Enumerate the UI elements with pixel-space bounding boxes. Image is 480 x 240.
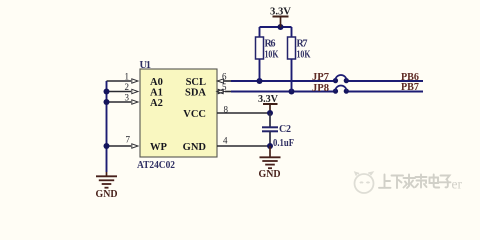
- junction SDA / R7: [289, 89, 295, 95]
- junction at A1: [104, 89, 110, 95]
- svg-text:0.1uF: 0.1uF: [273, 138, 294, 149]
- label JP8: [312, 82, 329, 94]
- ground symbol GND2 (C2): [260, 146, 281, 168]
- svg-text:10K: 10K: [297, 50, 311, 61]
- svg-text:8: 8: [224, 105, 229, 115]
- wire: SDA net right of JP8 to PB7: [347, 91, 423, 93]
- pin name WP: [150, 142, 168, 153]
- label GND (left): [96, 189, 118, 200]
- pin number 3: [125, 93, 130, 103]
- svg-text:er: er: [452, 177, 463, 192]
- net label PB7: [401, 81, 419, 93]
- junction at WP: [104, 143, 110, 149]
- svg-text:GND: GND: [259, 169, 281, 180]
- svg-text:A1: A1: [150, 88, 163, 99]
- svg-text:C2: C2: [279, 124, 291, 135]
- svg-text:SCL: SCL: [186, 77, 206, 88]
- svg-text:10K: 10K: [265, 50, 279, 61]
- svg-text:1: 1: [125, 72, 130, 82]
- pin name GND (pin 4): [183, 142, 207, 153]
- jumper JP8: [333, 86, 349, 94]
- svg-text:3.3V: 3.3V: [270, 6, 291, 18]
- junction at A2: [104, 99, 110, 105]
- resistor R7: [288, 27, 296, 92]
- junction VCC / C2: [267, 110, 273, 116]
- 子: [441, 176, 450, 188]
- pin 4 lead (GND): [217, 145, 270, 147]
- label JP7: [312, 71, 329, 83]
- pin number 8: [224, 105, 229, 115]
- pin number 2: [125, 82, 130, 92]
- pin name A0: [150, 77, 163, 88]
- junction GND pin / C2: [267, 143, 273, 149]
- wire: resistor tops joining: [260, 26, 292, 28]
- junction 3.3V / resistors: [278, 24, 284, 30]
- svg-text:5: 5: [222, 82, 227, 92]
- 下: [392, 175, 404, 177]
- pin name SCL: [186, 77, 206, 88]
- svg-text:6: 6: [222, 72, 227, 82]
- svg-text:4: 4: [223, 136, 228, 146]
- designator R6: [265, 39, 276, 50]
- pin name SDA: [185, 88, 206, 99]
- pin 2 lead (A1): [107, 89, 139, 93]
- pin name A1: [150, 88, 163, 99]
- pin 7 lead (WP): [107, 144, 139, 148]
- 电: [430, 178, 439, 184]
- label 3.3V (top): [270, 6, 291, 18]
- power port 3.3V (top): [273, 17, 289, 28]
- designator C2: [279, 124, 291, 135]
- jumper JP7: [333, 75, 349, 83]
- junction SCL / R6: [257, 78, 263, 84]
- svg-text:2: 2: [125, 82, 130, 92]
- capacitor C2: [262, 113, 278, 146]
- svg-text:WP: WP: [150, 142, 168, 153]
- svg-text:7: 7: [126, 135, 131, 145]
- svg-text:PB7: PB7: [401, 81, 419, 93]
- svg-text:GND: GND: [96, 189, 118, 200]
- power port 3.3V (VCC): [263, 104, 278, 113]
- 求: [404, 177, 416, 179]
- watermark text 上下求索电子er: [379, 175, 451, 189]
- value 10K (R7): [297, 50, 311, 61]
- pin 5 lead (SDA): [217, 89, 232, 93]
- pin number 1: [125, 72, 130, 82]
- ground symbol GND1 (left): [96, 172, 117, 188]
- resistor R6: [256, 27, 264, 81]
- pin 3 lead (A2): [107, 100, 139, 104]
- 索: [416, 176, 427, 178]
- pin number 4: [223, 136, 228, 146]
- svg-text:GND: GND: [183, 142, 207, 153]
- wire: SCL net (pin6 to jumper JP7): [231, 80, 335, 82]
- net label PB6: [401, 71, 419, 83]
- label 3.3V (VCC): [258, 93, 278, 105]
- pin 1 lead (A0): [107, 79, 139, 83]
- pin name VCC: [183, 109, 206, 120]
- value label AT24C02: [137, 160, 175, 171]
- label GND (C2): [259, 169, 281, 180]
- designator R7: [297, 39, 308, 50]
- svg-text:R7: R7: [297, 39, 308, 50]
- pin number 6: [222, 72, 227, 82]
- svg-text:VCC: VCC: [183, 109, 206, 120]
- svg-text:A0: A0: [150, 77, 163, 88]
- pin 8 lead (VCC): [217, 112, 270, 114]
- value 10K (R6): [265, 50, 279, 61]
- svg-text:3: 3: [125, 93, 130, 103]
- watermark logo (cat face): [355, 172, 374, 193]
- value 0.1uF: [273, 138, 294, 149]
- wire: SDA net (pin5 to jumper JP8): [231, 91, 335, 93]
- wire: SCL net right of JP7 to PB6: [347, 80, 423, 82]
- svg-text:U1: U1: [140, 60, 152, 71]
- pin name A2: [150, 98, 163, 109]
- designator U1: [140, 60, 152, 71]
- svg-text:AT24C02: AT24C02: [137, 160, 175, 171]
- wire: left vertical bus A0/A1/A2/WP to ground: [106, 81, 108, 172]
- 上: [384, 175, 386, 188]
- svg-text:A2: A2: [150, 98, 163, 109]
- watermark text er: [452, 177, 463, 192]
- pin number 5: [222, 82, 227, 92]
- pin 6 lead (SCL): [217, 79, 232, 83]
- svg-text:3.3V: 3.3V: [258, 93, 278, 105]
- svg-text:SDA: SDA: [185, 88, 206, 99]
- svg-text:R6: R6: [265, 39, 276, 50]
- IC U1 body (AT24C02 EEPROM rectangle): [140, 69, 217, 157]
- pin number 7: [126, 135, 131, 145]
- svg-text:JP8: JP8: [312, 82, 329, 94]
